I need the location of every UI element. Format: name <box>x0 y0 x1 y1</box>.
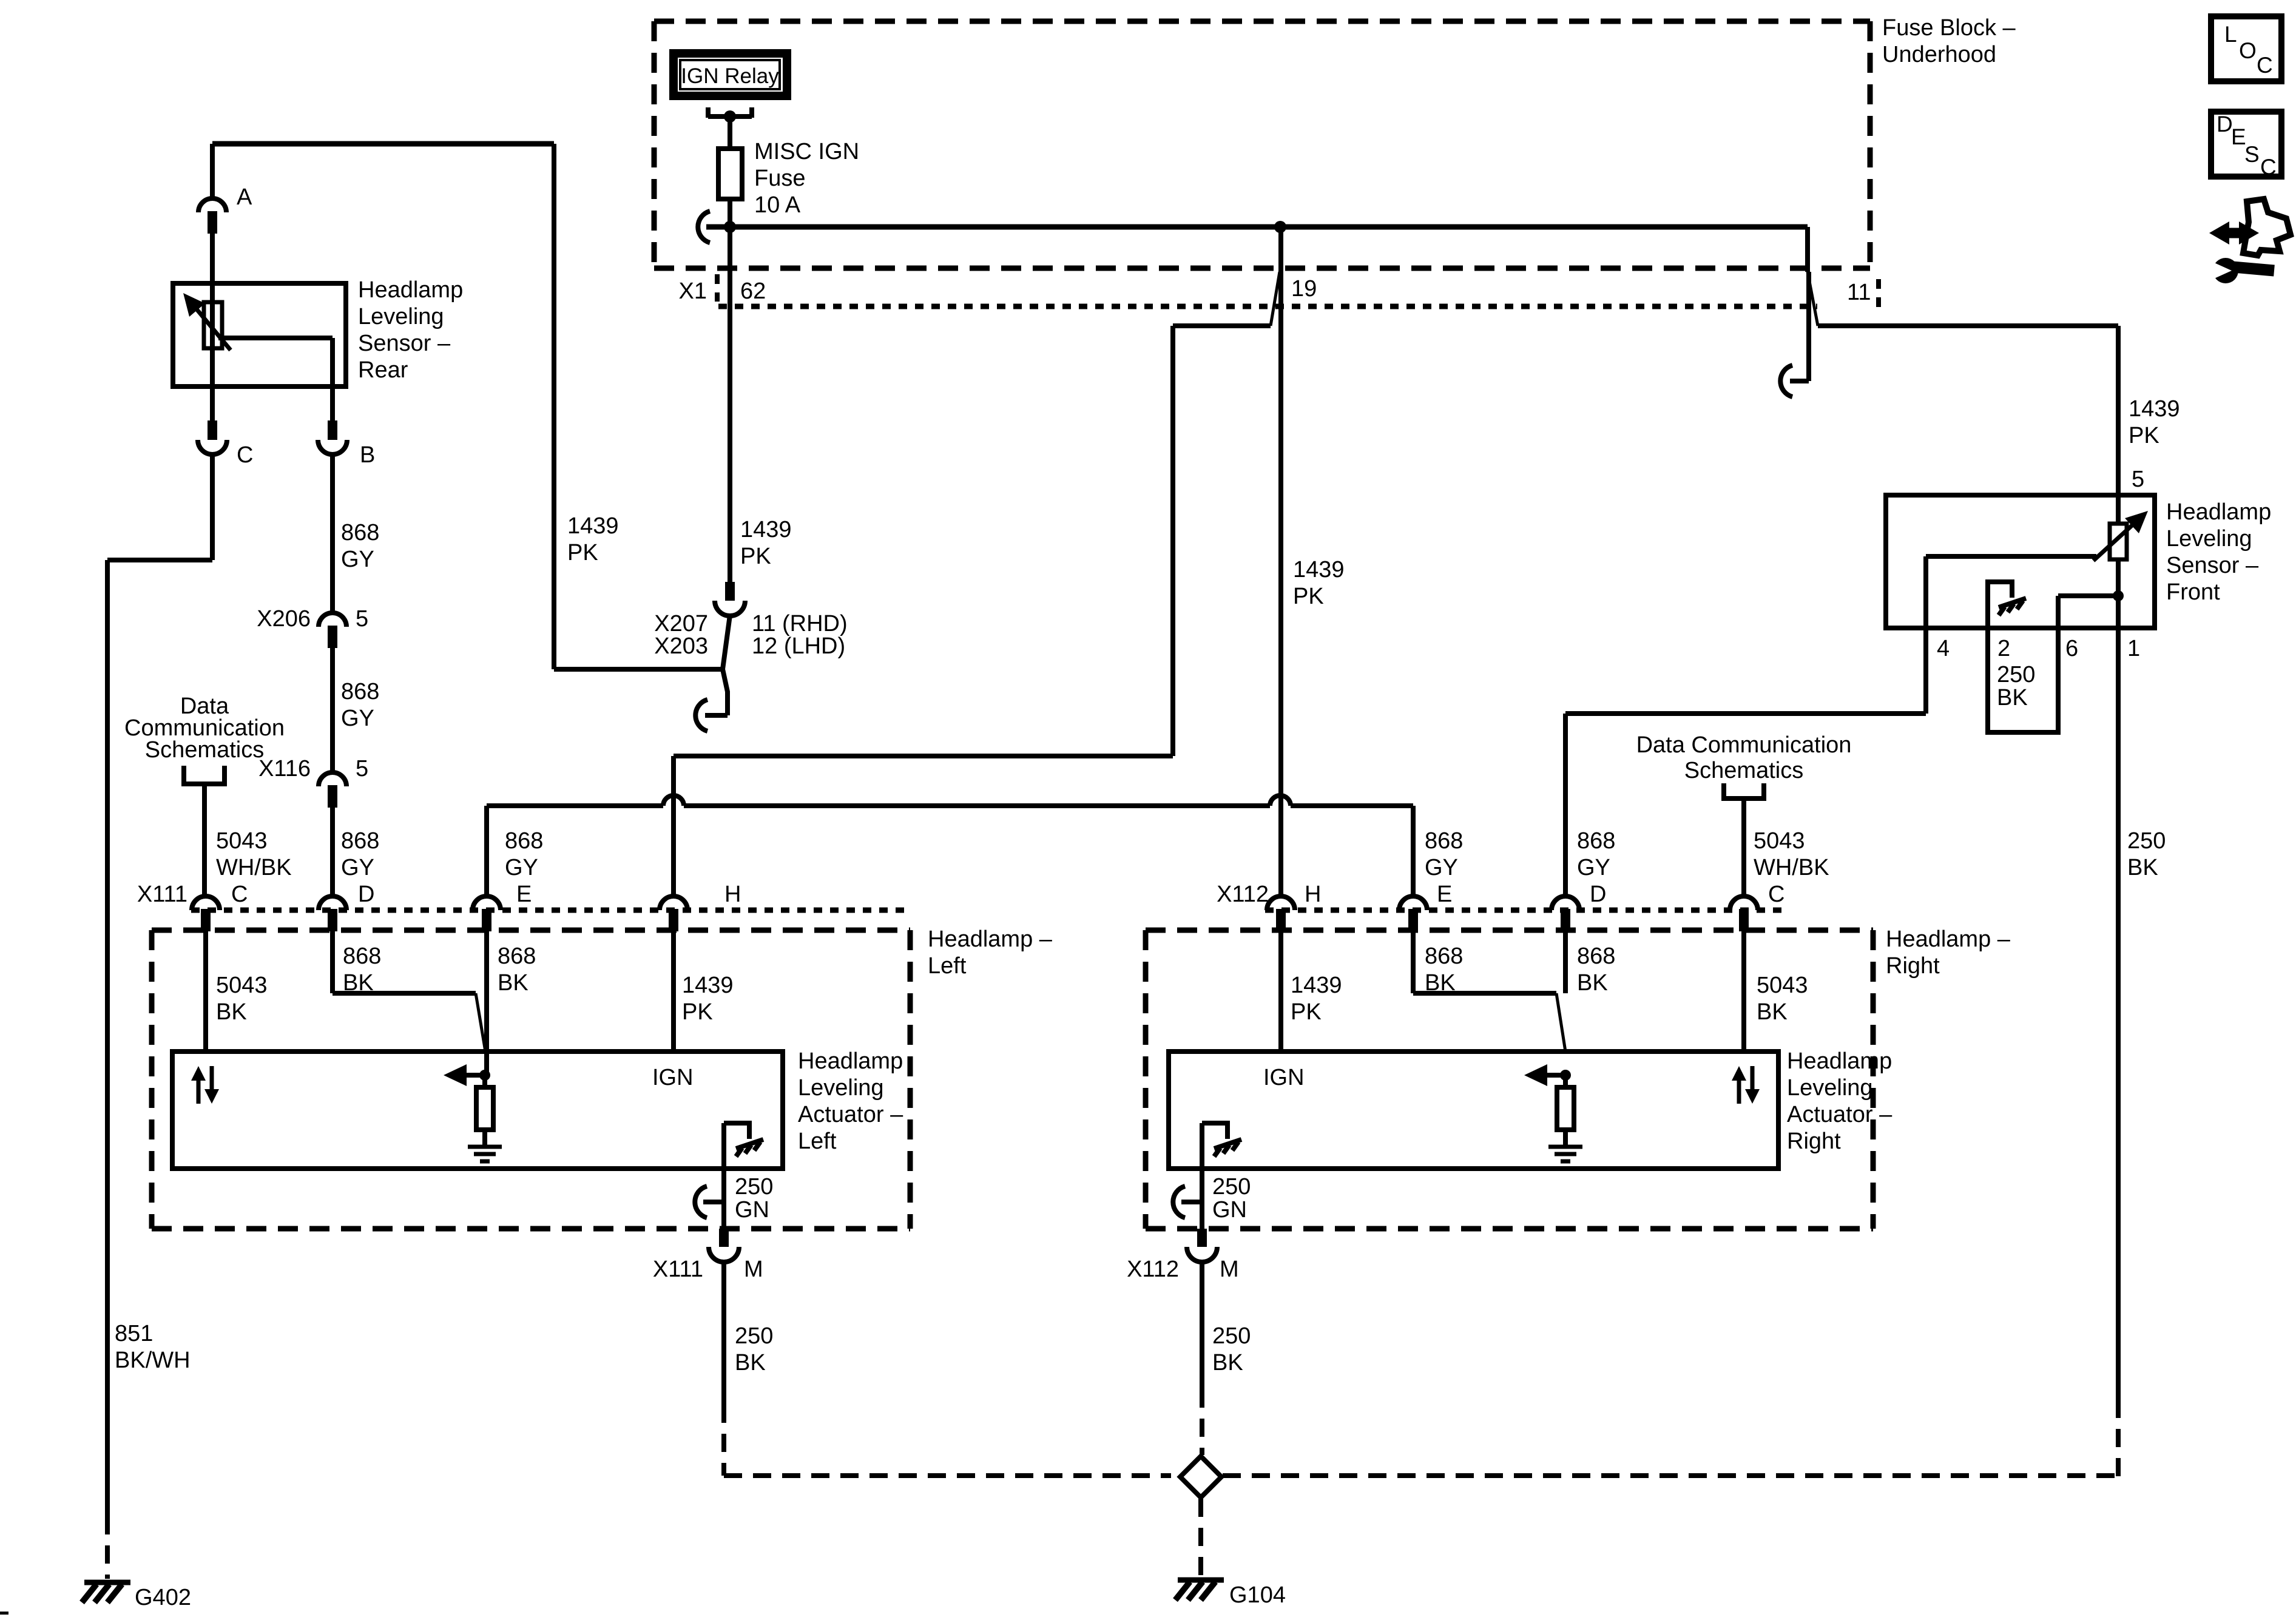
svg-text:BK: BK <box>343 970 374 996</box>
svg-text:BK: BK <box>2127 855 2158 880</box>
svg-text:Right: Right <box>1787 1129 1841 1154</box>
svg-text:D: D <box>358 882 374 907</box>
svg-text:Leveling: Leveling <box>358 304 444 329</box>
svg-text:C: C <box>1768 882 1784 907</box>
svg-text:851: 851 <box>115 1321 153 1346</box>
svg-text:X111: X111 <box>653 1257 703 1282</box>
svg-text:6: 6 <box>2065 636 2078 661</box>
svg-text:X111: X111 <box>137 882 187 907</box>
svg-text:GY: GY <box>1577 855 1610 880</box>
svg-text:C: C <box>237 442 253 468</box>
svg-text:M: M <box>1220 1257 1239 1282</box>
svg-text:Fuse Block –: Fuse Block – <box>1882 15 2016 41</box>
svg-text:X116: X116 <box>258 756 311 781</box>
svg-text:C: C <box>231 882 248 907</box>
svg-text:Sensor –: Sensor – <box>358 331 451 356</box>
svg-text:Left: Left <box>928 953 967 979</box>
svg-text:GN: GN <box>735 1197 769 1223</box>
svg-text:GN: GN <box>1212 1197 1247 1223</box>
svg-text:5043: 5043 <box>216 973 268 998</box>
svg-text:868: 868 <box>1577 944 1615 969</box>
svg-text:BK/WH: BK/WH <box>115 1348 191 1373</box>
svg-text:H: H <box>724 882 741 907</box>
svg-text:62: 62 <box>740 279 766 304</box>
svg-text:O: O <box>2239 38 2257 63</box>
svg-text:Headlamp: Headlamp <box>1787 1048 1892 1074</box>
svg-text:250: 250 <box>1997 662 2035 687</box>
svg-text:X203: X203 <box>654 633 708 659</box>
svg-text:19: 19 <box>1291 276 1317 302</box>
svg-text:Front: Front <box>2166 579 2220 605</box>
svg-text:1439: 1439 <box>740 517 792 542</box>
svg-text:868: 868 <box>1577 828 1615 854</box>
svg-text:BK: BK <box>216 999 247 1025</box>
svg-text:250: 250 <box>2127 828 2166 854</box>
svg-text:1439: 1439 <box>2129 396 2180 422</box>
svg-text:Left: Left <box>798 1129 837 1154</box>
svg-text:11 (RHD): 11 (RHD) <box>752 611 848 636</box>
svg-text:Actuator –: Actuator – <box>798 1102 903 1127</box>
svg-text:BK: BK <box>1757 999 1788 1025</box>
svg-text:Schematics: Schematics <box>145 737 264 763</box>
svg-text:1439: 1439 <box>1291 973 1342 998</box>
svg-text:G402: G402 <box>135 1585 191 1610</box>
svg-text:G104: G104 <box>1229 1582 1286 1608</box>
svg-text:BK: BK <box>498 970 528 996</box>
svg-text:868: 868 <box>341 679 379 704</box>
svg-text:868: 868 <box>341 520 379 545</box>
svg-text:IGN Relay: IGN Relay <box>681 64 779 88</box>
svg-text:X207: X207 <box>654 611 708 636</box>
svg-text:1439: 1439 <box>567 513 619 539</box>
svg-text:868: 868 <box>1425 944 1463 969</box>
svg-text:868: 868 <box>1425 828 1463 854</box>
svg-text:Rear: Rear <box>358 357 408 383</box>
svg-text:250: 250 <box>1212 1174 1251 1200</box>
svg-text:PK: PK <box>682 999 713 1025</box>
svg-text:C: C <box>2260 155 2277 180</box>
svg-text:BK: BK <box>1577 970 1608 996</box>
svg-text:250: 250 <box>735 1323 773 1349</box>
svg-text:Headlamp –: Headlamp – <box>928 927 1053 952</box>
svg-text:GY: GY <box>341 855 374 880</box>
svg-text:E: E <box>1437 882 1452 907</box>
svg-text:5043: 5043 <box>216 828 268 854</box>
svg-text:X1: X1 <box>679 279 707 304</box>
svg-text:B: B <box>360 442 375 468</box>
svg-text:Leveling: Leveling <box>2166 526 2252 552</box>
svg-text:A: A <box>237 184 252 210</box>
svg-text:Leveling: Leveling <box>798 1075 884 1101</box>
svg-text:BK: BK <box>1212 1350 1243 1376</box>
svg-text:GY: GY <box>341 706 374 731</box>
svg-text:IGN: IGN <box>652 1065 694 1090</box>
svg-text:868: 868 <box>498 944 536 969</box>
svg-text:Schematics: Schematics <box>1684 758 1803 783</box>
svg-text:GY: GY <box>341 547 374 572</box>
svg-text:H: H <box>1305 882 1321 907</box>
svg-text:11: 11 <box>1847 280 1871 305</box>
svg-text:4: 4 <box>1937 636 1950 661</box>
svg-text:1439: 1439 <box>682 973 734 998</box>
svg-text:PK: PK <box>567 540 598 565</box>
svg-text:WH/BK: WH/BK <box>1754 855 1829 880</box>
svg-text:5: 5 <box>356 756 368 781</box>
svg-text:BK: BK <box>1997 685 2028 711</box>
svg-text:Headlamp: Headlamp <box>2166 499 2271 525</box>
svg-text:250: 250 <box>1212 1323 1251 1349</box>
svg-text:868: 868 <box>343 944 381 969</box>
svg-text:GY: GY <box>505 855 538 880</box>
svg-text:E: E <box>516 882 532 907</box>
svg-text:10 A: 10 A <box>754 192 801 218</box>
svg-text:Sensor –: Sensor – <box>2166 553 2259 578</box>
svg-text:Underhood: Underhood <box>1882 42 1996 67</box>
svg-text:L: L <box>2224 22 2237 47</box>
svg-text:2: 2 <box>1997 636 2010 661</box>
svg-text:1439: 1439 <box>1293 557 1345 582</box>
svg-text:868: 868 <box>505 828 543 854</box>
svg-text:C: C <box>2257 53 2273 78</box>
svg-text:X112: X112 <box>1217 882 1269 907</box>
svg-text:5: 5 <box>2132 467 2144 492</box>
svg-text:1: 1 <box>2127 636 2140 661</box>
svg-text:250: 250 <box>735 1174 773 1200</box>
svg-text:GY: GY <box>1425 855 1458 880</box>
svg-text:Data Communication: Data Communication <box>1636 732 1852 758</box>
svg-text:MISC IGN: MISC IGN <box>754 139 859 164</box>
svg-text:IGN: IGN <box>1263 1065 1305 1090</box>
svg-text:Fuse: Fuse <box>754 166 805 191</box>
svg-text:Headlamp –: Headlamp – <box>1886 927 2011 952</box>
svg-text:PK: PK <box>740 544 771 569</box>
svg-text:D: D <box>2217 112 2233 137</box>
svg-text:S: S <box>2244 142 2260 167</box>
svg-text:5: 5 <box>356 606 368 632</box>
svg-text:WH/BK: WH/BK <box>216 855 292 880</box>
svg-text:M: M <box>744 1257 763 1282</box>
svg-text:BK: BK <box>735 1350 766 1376</box>
svg-text:D: D <box>1590 882 1606 907</box>
svg-text:Leveling: Leveling <box>1787 1075 1873 1101</box>
svg-text:12 (LHD): 12 (LHD) <box>752 633 845 659</box>
svg-text:Actuator –: Actuator – <box>1787 1102 1893 1127</box>
svg-text:868: 868 <box>341 828 379 854</box>
svg-text:PK: PK <box>1291 999 1322 1025</box>
svg-text:PK: PK <box>2129 423 2159 448</box>
svg-text:Headlamp: Headlamp <box>358 277 463 303</box>
svg-text:X206: X206 <box>257 606 311 632</box>
svg-text:5043: 5043 <box>1757 973 1808 998</box>
svg-text:E: E <box>2231 124 2246 149</box>
svg-text:5043: 5043 <box>1754 828 1805 854</box>
svg-text:X112: X112 <box>1127 1257 1179 1282</box>
svg-text:BK: BK <box>1425 970 1456 996</box>
svg-text:Right: Right <box>1886 953 1940 979</box>
svg-text:PK: PK <box>1293 584 1324 609</box>
svg-text:Headlamp: Headlamp <box>798 1048 903 1074</box>
